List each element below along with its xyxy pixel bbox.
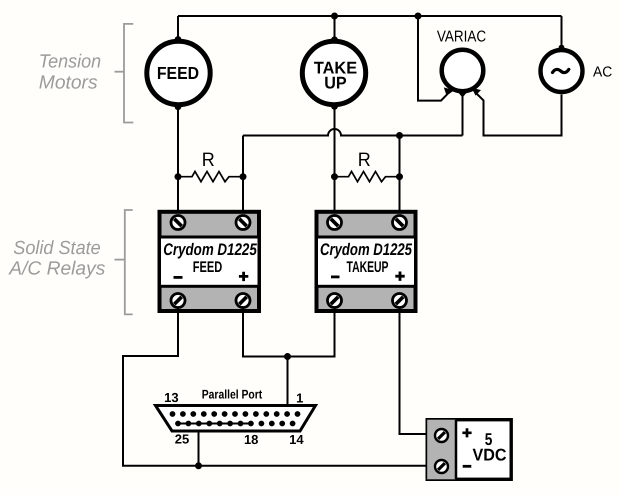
svg-text:VARIAC: VARIAC	[437, 28, 486, 45]
screw U2 top-right	[393, 216, 407, 230]
wire left relay right screw drop	[242, 177, 244, 216]
relay U2 Crydom D1225 TAKEUP	[317, 212, 416, 311]
svg-text:25: 25	[175, 432, 189, 447]
junction on top bus above TAKE UP	[331, 13, 338, 20]
wire U2 plus to 5VDC plus	[400, 307, 437, 434]
wire top bus	[178, 15, 562, 17]
junction wiper bus at right riser	[396, 132, 403, 139]
screw PS1 plus	[435, 429, 448, 442]
svg-text:Crydom D1225: Crydom D1225	[320, 240, 413, 259]
relay U1 Crydom D1225 FEED	[160, 212, 260, 311]
variac right brush	[472, 88, 481, 96]
wire TAKE UP top drop	[334, 16, 336, 42]
svg-text:13: 13	[164, 390, 178, 405]
power supply PS1 5 VDC	[427, 420, 511, 480]
svg-text:Parallel Port: Parallel Port	[202, 388, 263, 402]
svg-text:R: R	[358, 149, 371, 171]
svg-text:FEED: FEED	[157, 63, 199, 83]
resistor R1	[178, 149, 243, 182]
svg-text:R: R	[202, 149, 215, 171]
variac T1	[437, 28, 486, 91]
junction R1 left	[175, 173, 182, 180]
variac left brush	[444, 87, 454, 95]
wire right riser to wiper bus	[399, 136, 401, 177]
junction R2 left	[331, 173, 338, 180]
svg-text:Crydom D1225: Crydom D1225	[163, 240, 257, 259]
motor FEED	[147, 36, 210, 110]
junction R2 right	[396, 173, 403, 180]
port pins row 1 (13..1)	[170, 411, 301, 417]
wire U1 plus to U2 minus	[243, 307, 335, 357]
wire FEED bottom to relay U1	[177, 106, 179, 216]
wire TAKE UP bottom to relay U2	[334, 106, 336, 216]
bracket for solid state relays	[115, 210, 133, 314]
AC source V1	[541, 45, 613, 92]
wire variac wiper drop	[462, 93, 464, 136]
wire FEED top drop	[177, 16, 179, 41]
resistor R2	[335, 149, 400, 182]
screw U1 bottom-right	[236, 294, 250, 308]
svg-text:1: 1	[296, 391, 303, 406]
junction on top bus at variac branch	[415, 13, 422, 20]
motor TAKE UP	[302, 36, 365, 109]
wire ground strap pins 25-18	[178, 423, 251, 425]
wire variac right brush to AC bottom	[477, 94, 562, 136]
wire U1 minus to ground bus	[123, 307, 436, 466]
screw U1 bottom-left	[171, 294, 185, 308]
connector J1 parallel port	[156, 406, 316, 432]
wire bus to VARIAC left brush	[418, 16, 447, 101]
svg-text:14: 14	[289, 432, 304, 447]
screw U2 bottom-left	[328, 294, 342, 308]
svg-text:VDC: VDC	[473, 446, 507, 465]
junction ground bus	[195, 462, 202, 469]
svg-text:FEED: FEED	[193, 259, 223, 276]
junction R1 right	[240, 173, 247, 180]
svg-text:Tension: Tension	[39, 52, 101, 73]
bracket for tension motors	[115, 24, 134, 123]
svg-text:Solid State: Solid State	[13, 238, 100, 259]
wire riser left relay to wiper bus	[242, 136, 244, 177]
screw U1 top-left	[171, 216, 185, 230]
junction control node	[284, 353, 291, 360]
screw U2 top-left	[328, 216, 342, 230]
wire control node to port pin 1 area	[287, 357, 289, 415]
wire ground bus to port pin 25 area	[198, 424, 200, 466]
svg-text:A/C Relays: A/C Relays	[8, 259, 106, 280]
port pins row 2 (25..14)	[175, 421, 295, 427]
screw U2 bottom-right	[393, 294, 407, 308]
label Tension Motors	[39, 52, 101, 94]
svg-text:18: 18	[244, 432, 258, 447]
variac wiper	[456, 90, 469, 98]
label Solid State A/C Relays	[8, 238, 106, 280]
wire AC top drop	[561, 16, 563, 49]
svg-text:TAKEUP: TAKEUP	[347, 259, 389, 276]
svg-text:AC: AC	[593, 65, 612, 81]
svg-text:UP: UP	[324, 73, 346, 92]
screw PS1 minus	[435, 460, 448, 473]
screw U1 top-right	[236, 216, 250, 230]
svg-text:Motors: Motors	[39, 73, 98, 94]
wire right relay right screw drop	[399, 177, 401, 216]
wire wiper bus with hop	[243, 129, 463, 135]
